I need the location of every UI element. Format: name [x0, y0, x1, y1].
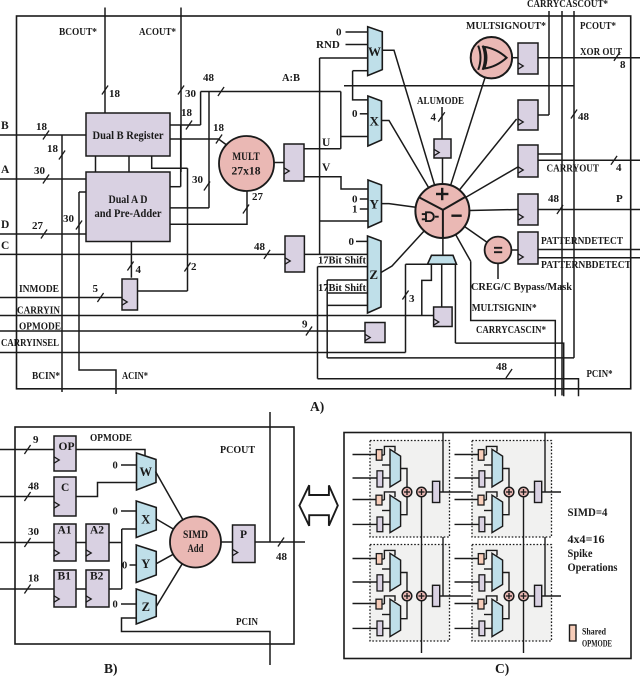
svg-text:0: 0: [352, 108, 358, 120]
svg-text:4x4=16: 4x4=16: [568, 534, 605, 546]
svg-text:Z: Z: [369, 267, 378, 282]
svg-text:PCOUT*: PCOUT*: [580, 20, 616, 32]
svg-text:Operations: Operations: [568, 562, 618, 574]
svg-text:5: 5: [93, 283, 99, 295]
svg-text:Y: Y: [370, 196, 380, 211]
svg-text:18: 18: [109, 88, 121, 100]
svg-text:CARRYOUT: CARRYOUT: [547, 162, 600, 174]
svg-text:C): C): [495, 661, 509, 676]
svg-text:48: 48: [548, 193, 560, 205]
svg-text:18: 18: [213, 122, 225, 134]
svg-text:W: W: [140, 465, 153, 479]
svg-text:A2: A2: [90, 525, 104, 537]
svg-text:OPMODE: OPMODE: [19, 321, 61, 333]
svg-text:BCOUT*: BCOUT*: [59, 26, 97, 38]
svg-text:Dual B Register: Dual B Register: [93, 130, 164, 142]
svg-text:CARRYCASCIN*: CARRYCASCIN*: [476, 324, 546, 336]
svg-text:PATTERNDETECT: PATTERNDETECT: [541, 235, 624, 247]
svg-text:4: 4: [431, 112, 437, 124]
svg-text:C: C: [1, 240, 9, 252]
svg-text:Spike: Spike: [568, 548, 593, 560]
svg-text:27x18: 27x18: [232, 164, 261, 178]
svg-text:0: 0: [122, 561, 127, 572]
svg-text:A): A): [310, 399, 324, 414]
svg-text:A1: A1: [58, 525, 72, 537]
svg-text:B: B: [1, 120, 9, 132]
svg-text:W: W: [368, 44, 381, 59]
svg-text:0: 0: [349, 236, 355, 248]
svg-text:Shared: Shared: [582, 628, 607, 638]
svg-text:4: 4: [616, 162, 622, 174]
svg-text:P: P: [616, 193, 623, 205]
svg-text:U: U: [322, 137, 331, 149]
svg-text:MULTSIGNOUT*: MULTSIGNOUT*: [466, 20, 546, 32]
svg-text:ACOUT*: ACOUT*: [139, 26, 176, 38]
svg-text:48: 48: [578, 111, 590, 123]
svg-text:OP: OP: [59, 441, 75, 453]
svg-text:V: V: [322, 162, 331, 174]
svg-text:1: 1: [352, 204, 358, 216]
svg-text:CARRYINSEL: CARRYINSEL: [1, 337, 59, 349]
svg-text:B2: B2: [90, 571, 104, 583]
svg-text:48: 48: [203, 72, 215, 84]
svg-text:CREG/C Bypass/Mask: CREG/C Bypass/Mask: [471, 281, 573, 293]
svg-text:XOR OUT: XOR OUT: [580, 46, 623, 58]
svg-text:Dual A D: Dual A D: [109, 194, 148, 206]
svg-text:ALUMODE: ALUMODE: [417, 95, 464, 107]
svg-text:SIMD=4: SIMD=4: [568, 507, 608, 519]
svg-text:Z: Z: [142, 600, 150, 614]
svg-text:17Bit Shift: 17Bit Shift: [318, 256, 366, 267]
svg-text:BCIN*: BCIN*: [32, 370, 60, 382]
svg-text:CARRYCASCOUT*: CARRYCASCOUT*: [527, 0, 608, 10]
svg-text:9: 9: [302, 319, 308, 331]
svg-text:0: 0: [113, 600, 118, 611]
svg-text:2: 2: [191, 261, 197, 273]
svg-text:30: 30: [185, 88, 197, 100]
svg-text:CARRYIN: CARRYIN: [17, 305, 60, 317]
svg-text:SIMD: SIMD: [183, 529, 208, 541]
svg-text:OPMODE: OPMODE: [90, 432, 132, 444]
svg-text:4: 4: [136, 264, 142, 276]
svg-text:9: 9: [33, 434, 39, 446]
svg-text:48: 48: [276, 551, 288, 563]
svg-text:D: D: [1, 219, 9, 231]
svg-text:18: 18: [47, 143, 59, 155]
svg-text:RND: RND: [316, 39, 340, 51]
svg-text:27: 27: [252, 191, 264, 203]
svg-text:P: P: [240, 529, 247, 541]
svg-text:17Bit Shift: 17Bit Shift: [318, 283, 366, 294]
svg-text:48: 48: [254, 241, 266, 253]
svg-text:PCOUT: PCOUT: [220, 444, 256, 456]
svg-text:27: 27: [32, 220, 44, 232]
svg-text:48: 48: [496, 361, 508, 373]
svg-text:PCIN: PCIN: [236, 616, 258, 628]
svg-text:18: 18: [181, 107, 193, 119]
svg-text:18: 18: [36, 121, 48, 133]
svg-text:MULT: MULT: [232, 149, 260, 163]
svg-text:X: X: [370, 114, 380, 129]
svg-text:PATTERNBDETECT: PATTERNBDETECT: [541, 259, 632, 271]
svg-text:A: A: [1, 164, 10, 176]
svg-text:0: 0: [336, 27, 342, 39]
svg-text:Add: Add: [188, 543, 204, 555]
svg-text:MULTSIGNIN*: MULTSIGNIN*: [472, 302, 537, 314]
svg-text:30: 30: [28, 526, 40, 538]
svg-text:30: 30: [34, 165, 46, 177]
svg-text:PCIN*: PCIN*: [587, 368, 613, 380]
svg-text:30: 30: [192, 174, 204, 186]
svg-text:ACIN*: ACIN*: [122, 370, 148, 382]
svg-text:0: 0: [113, 507, 118, 518]
svg-text:A:B: A:B: [282, 72, 301, 84]
svg-text:OPMODE: OPMODE: [582, 640, 612, 650]
svg-text:X: X: [141, 513, 150, 527]
svg-text:INMODE: INMODE: [19, 283, 59, 295]
svg-text:and Pre-Adder: and Pre-Adder: [95, 208, 162, 220]
svg-text:C: C: [61, 482, 69, 494]
svg-text:Y: Y: [141, 557, 150, 571]
svg-text:8: 8: [620, 59, 626, 71]
svg-text:0: 0: [113, 461, 118, 472]
svg-text:B): B): [104, 661, 118, 676]
svg-text:48: 48: [28, 481, 40, 493]
svg-text:30: 30: [63, 213, 75, 225]
svg-text:B1: B1: [58, 571, 72, 583]
svg-text:18: 18: [28, 573, 40, 585]
svg-text:3: 3: [409, 293, 415, 305]
